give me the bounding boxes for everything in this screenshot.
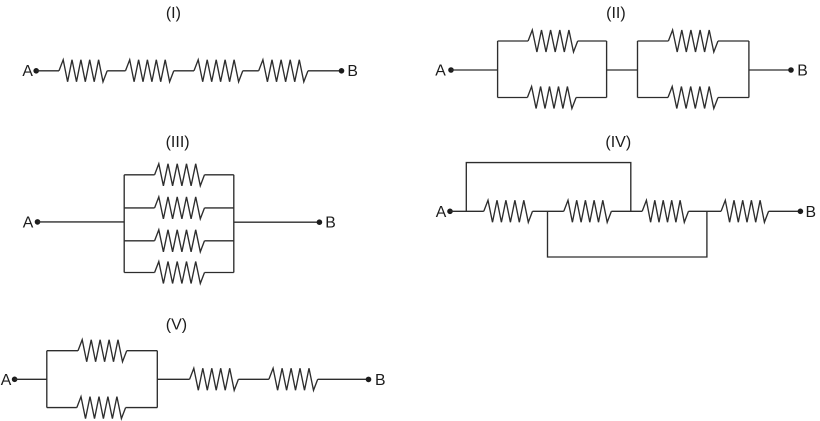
wire <box>127 350 158 352</box>
wire <box>124 207 154 209</box>
resistor <box>155 197 205 219</box>
wire <box>124 272 154 274</box>
wire <box>205 240 234 242</box>
wire <box>718 40 749 42</box>
wire <box>243 70 259 72</box>
resistor top box <box>78 340 127 362</box>
wire <box>638 97 669 99</box>
wire junction right box <box>156 351 158 408</box>
resistor <box>155 262 205 284</box>
wire top bypass loop <box>466 163 631 212</box>
wire <box>451 69 498 71</box>
wire <box>15 378 47 380</box>
svg-text:B: B <box>325 215 336 232</box>
resistor <box>259 60 308 82</box>
resistor <box>194 60 243 82</box>
wire <box>174 70 194 72</box>
resistor <box>126 60 174 82</box>
wire junction right box1 <box>606 41 608 98</box>
wire <box>205 174 234 176</box>
wire <box>498 97 528 99</box>
svg-text:(III): (III) <box>166 134 190 151</box>
wire <box>318 378 369 380</box>
wire <box>124 174 154 176</box>
wire junction left box2 <box>637 41 639 98</box>
node B (II) <box>788 67 794 73</box>
wire <box>578 40 607 42</box>
node B (IV) <box>798 209 804 215</box>
resistor bottom box <box>77 397 126 419</box>
wire <box>638 40 669 42</box>
resistor <box>190 368 239 390</box>
wire <box>124 240 154 242</box>
wire junction right box2 <box>748 41 750 98</box>
resistor <box>155 164 205 186</box>
wire <box>238 378 269 380</box>
node B (I) <box>339 68 345 74</box>
wire <box>36 70 59 72</box>
wire <box>576 97 607 99</box>
wire <box>498 40 528 42</box>
wire <box>450 210 484 212</box>
wire <box>689 210 722 212</box>
resistor top box1 <box>528 30 578 52</box>
wire <box>107 70 125 72</box>
svg-text:(II): (II) <box>606 5 626 22</box>
wire <box>126 407 158 409</box>
wire <box>47 407 77 409</box>
wire <box>205 207 234 209</box>
wire right rail <box>233 175 235 273</box>
resistor <box>721 200 769 222</box>
svg-text:B: B <box>797 63 808 80</box>
wire <box>533 210 564 212</box>
svg-text:(V): (V) <box>166 316 187 333</box>
resistor <box>155 230 205 252</box>
resistor <box>269 368 318 390</box>
wire left rail <box>123 175 125 273</box>
wire <box>749 69 791 71</box>
wire <box>611 210 642 212</box>
resistor <box>484 200 533 222</box>
wire <box>47 350 78 352</box>
svg-text:A: A <box>435 63 446 80</box>
svg-text:A: A <box>23 214 34 231</box>
svg-text:B: B <box>347 63 358 80</box>
resistor <box>564 200 612 222</box>
node B (V) <box>366 377 372 383</box>
wire <box>157 378 189 380</box>
wire bottom bypass loop <box>548 211 707 257</box>
svg-text:A: A <box>436 204 447 221</box>
wire <box>607 69 638 71</box>
wire <box>38 221 125 223</box>
node B (III) <box>317 219 323 225</box>
svg-text:(I): (I) <box>166 5 181 22</box>
svg-text:B: B <box>806 204 817 221</box>
wire junction left box <box>46 351 48 408</box>
wire <box>769 210 801 212</box>
wire <box>234 221 320 223</box>
wire <box>205 272 234 274</box>
wire junction left box1 <box>497 41 499 98</box>
resistor top box2 <box>668 30 718 52</box>
resistor bottom box1 <box>527 87 576 109</box>
resistor <box>642 200 688 222</box>
wire <box>308 70 342 72</box>
resistor <box>59 60 107 82</box>
svg-text:A: A <box>22 63 33 80</box>
svg-text:A: A <box>1 372 12 389</box>
wire <box>718 97 749 99</box>
resistor bottom box2 <box>668 87 718 109</box>
svg-text:B: B <box>375 372 386 389</box>
svg-text:(IV): (IV) <box>605 134 631 151</box>
